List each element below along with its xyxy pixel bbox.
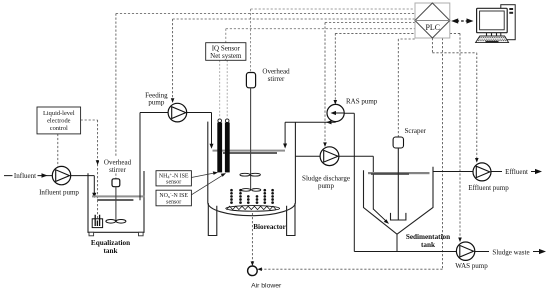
pump: RAS pump [327,104,344,121]
wire dashed: IQ sensor net to NOx sensor [226,60,228,118]
svg-text:Effluent pump: Effluent pump [468,184,509,192]
box: NH4-N ISE sensor label [156,171,191,186]
svg-text:pump: pump [148,99,164,107]
wire dashed: air line diffuser to air blower [251,213,253,263]
svg-text:NOx--N ISE: NOx--N ISE [159,191,188,199]
pipe: RAS return line to bioreactor [285,122,336,145]
pipe: influent line [4,175,52,177]
pipe: sludge bottom line to WAS pump and waste [354,251,541,253]
wire dashed: PLC to WAS pump [450,33,460,239]
stirrer: equalization shaft [115,187,117,221]
svg-text:NH4+-N ISE: NH4+-N ISE [159,172,189,180]
PLC: diamond [415,3,450,38]
wire dashed: PLC to scraper [398,39,414,137]
pipe: effluent line [433,171,537,173]
svg-text:Sludge waste: Sludge waste [492,248,529,256]
svg-text:Net system: Net system [210,52,242,60]
electrode: liquid level electrode in tank [92,219,102,228]
svg-text:pump: pump [318,182,334,190]
wire dashed: PLC to effluent pump [432,38,476,160]
tank: bioreactor bowl bottom [208,203,296,216]
diffuser: air diffuser ellipse with teeth [226,206,280,212]
water line: bioreactor [213,150,286,152]
pump: influent pump [52,166,70,184]
pump: effluent pump [473,163,491,181]
svg-text:stirrer: stirrer [268,75,285,83]
svg-text:WAS pump: WAS pump [455,262,488,270]
pipe: sludge discharge pump to sedimentation tank [339,156,373,209]
scraper: shaft and rake [397,148,399,220]
label: Overhead stirrer (equalization) [99,158,136,174]
box: IQ Sensor Net system [206,43,246,61]
svg-text:electrode: electrode [47,118,71,125]
svg-text:sensor: sensor [166,199,181,205]
pump: feeding pump [168,103,187,122]
wire dashed: IQ sensor net to NH4 sensor [219,60,221,118]
tank: equalization tank feet [89,232,94,236]
pipe: sedimentation tank to RAS pump [344,113,354,251]
svg-text:sensor: sensor [166,180,181,186]
stirrer: bioreactor shaft [250,88,252,190]
svg-text:Influent pump: Influent pump [39,189,79,197]
blower: air blower [248,266,258,276]
svg-text:Liquid-level: Liquid-level [43,110,75,117]
pipe: bioreactor to sludge discharge pump [295,155,320,157]
wire dashed: sludge discharge pump to PLC [325,23,415,145]
wire dashed: liquid-level control to influent pump [57,134,59,166]
svg-text:tank: tank [104,247,118,255]
svg-text:Sedimentation: Sedimentation [406,233,450,241]
pump: sludge discharge pump [320,147,339,166]
label: Effluent [502,167,531,175]
stirrer: bioreactor overhead stirrer motor [246,73,255,88]
tank: bioreactor legs [208,203,295,236]
wire dashed: bioreactor overhead stirrer to PLC [251,9,415,73]
tank: equalization tank walls [88,171,144,232]
label: Influent [13,172,38,180]
computer: monitor stand [487,33,497,36]
tank: bioreactor right wall [294,122,296,202]
water line: equalization tank [92,195,144,197]
tank: sedimentation tank [364,167,434,235]
computer: monitor [477,8,508,32]
arrow: NH4 box to sensor [191,173,215,178]
pump: WAS pump [456,242,474,260]
stirrer: equalization propeller [106,220,116,224]
sensor: NH4 ISE sensor bar [218,119,222,123]
wire dashed: IQ sensor net to PLC [226,29,415,43]
sensor: NOx ISE sensor bar [225,119,229,123]
pipe: equalization tank to feeding pump [140,113,168,201]
water line: sedimentation tank [368,172,430,174]
PLC: outer square [415,3,450,38]
arrow: NOx box to sensor [191,175,223,195]
wire dashed: equalization overhead stirrer to PLC [116,14,415,179]
arrow: PLC to computer bidirectional [457,20,469,22]
tank: bioreactor left wall [207,122,209,203]
svg-text:Equalization: Equalization [91,239,130,247]
stirrer: bioreactor upper propeller [240,173,250,176]
stirrer: equalization overhead stirrer motor [112,179,120,187]
pipe: feed drop into sedimentation tank + settle arrow [373,209,386,222]
svg-text:control: control [50,125,68,132]
svg-text:Effluent: Effluent [505,168,528,176]
box: liquid-level electrode control [37,107,81,134]
computer: tower case [501,5,515,40]
wire dashed: liquid-level control to tank electrode [81,120,98,219]
scraper: motor [393,137,403,148]
bubbles: aeration bubbles [230,189,274,204]
wire dashed: RAS pump to PLC [335,33,414,101]
computer: keyboard [476,36,509,43]
svg-text:Air blower: Air blower [251,282,282,289]
pipe: feeding pump to bioreactor [187,113,212,146]
svg-text:PLC: PLC [426,23,440,32]
box: NOx-N ISE sensor label [156,190,191,206]
PLC: mid line [415,20,450,22]
wire dashed: PLC to air blower [260,38,443,269]
pipe: influent pump to equalization tank [71,176,95,195]
svg-text:Bioreactor: Bioreactor [253,223,286,231]
label: Sludge waste [489,248,533,256]
svg-text:Influent: Influent [14,172,36,180]
stirrer: bioreactor lower propeller [241,189,250,192]
svg-text:tank: tank [421,241,435,249]
wire dashed: feeding pump to PLC [173,19,415,100]
pipe: funnel tip drop [396,234,398,251]
svg-text:stirrer: stirrer [109,166,126,174]
svg-text:RAS pump: RAS pump [346,97,378,105]
svg-text:Scraper: Scraper [405,127,427,135]
